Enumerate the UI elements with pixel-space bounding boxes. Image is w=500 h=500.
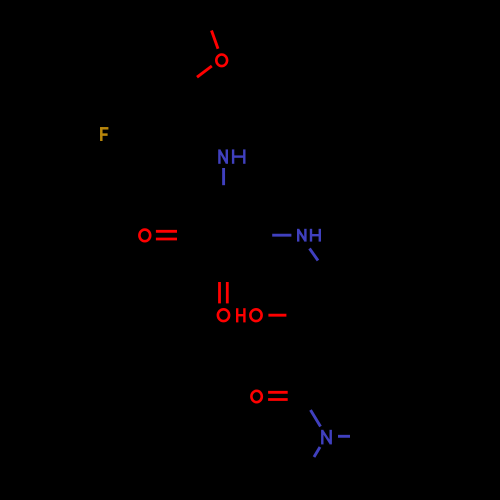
- node N1: NH amine label (top): [219, 149, 244, 163]
- wire: double bond O5=C (O half, red): [268, 391, 288, 394]
- node O2: left carbonyl oxygen label: [139, 230, 150, 242]
- node O5: amide carbonyl oxygen label: [251, 391, 261, 402]
- wire: bond O1-C ring (O half, red): [197, 66, 212, 77]
- node N2: NH amine label (right): [298, 229, 320, 242]
- wire: bond N3-CH3 down-left (N half, blue): [314, 447, 320, 457]
- wire: bond O1-CH3 (O half, red): [212, 31, 219, 49]
- wire: bond N2-C down-right (N half, blue): [310, 249, 319, 261]
- node O4: hydroxyl HO label: [237, 308, 244, 322]
- wire: bond N2-C left (N half, blue): [272, 234, 291, 237]
- node O3: bottom carbonyl oxygen label: [218, 309, 229, 321]
- node F1: fluorine label: [100, 127, 108, 141]
- wire: bond N3-C carbonyl (N half, blue): [311, 410, 321, 427]
- wire: bond N3-CH3 right (N half, blue): [338, 435, 350, 438]
- wire: bond N1-C (N half, blue) vertical: [222, 168, 225, 185]
- node O1: ether oxygen label: [216, 55, 227, 67]
- wire: double bond O2=C (O half, red): [156, 230, 177, 233]
- wire: bond O4-C (O half, red): [268, 314, 286, 317]
- node N3: amide nitrogen label: [322, 430, 330, 445]
- wire: double bond O3=C vertical (O half, red): [218, 282, 221, 303]
